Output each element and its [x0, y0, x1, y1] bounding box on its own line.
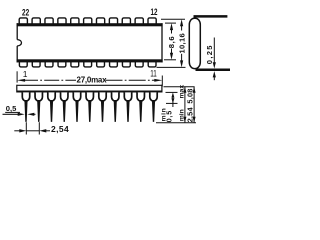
- body bar top line: [17, 84, 162, 86]
- 2,54 line between: [26, 130, 39, 132]
- dim line lower: [171, 49, 173, 57]
- down arrowhead: [180, 60, 183, 67]
- body bar bottom line (thick): [17, 91, 162, 93]
- down arrowhead: [170, 53, 173, 60]
- pins: tips x11: [24, 100, 155, 122]
- svg-text:0,5: 0,5: [6, 104, 17, 113]
- right extension line: [161, 76, 163, 87]
- svg-text:2,54: 2,54: [51, 124, 69, 134]
- dim 8,6 (body width): [164, 23, 176, 60]
- svg-text:10,16: 10,16: [178, 33, 187, 54]
- extension line from body top: [165, 22, 176, 24]
- side view: [3, 85, 162, 135]
- dim B down arrowhead at pin tip ext: [193, 117, 196, 123]
- 2,54 leader to text: [45, 130, 51, 132]
- IC body top view: [17, 18, 163, 67]
- ext line body bottom right: [166, 91, 178, 93]
- dim A down arrowhead: [183, 117, 186, 123]
- extension line from bottom pins: [157, 66, 186, 68]
- body left edge with index notch: [16, 23, 18, 39]
- left extension line: [16, 71, 18, 82]
- dim line B: [193, 87, 195, 123]
- 0,25 up arrowhead: [213, 71, 216, 77]
- side view right dimensions: [156, 85, 196, 123]
- body bottom edge (thick): [17, 59, 163, 62]
- 0,25 down arrowhead: [213, 62, 216, 68]
- dim line lower: [181, 54, 183, 64]
- ext line pin2: [38, 122, 40, 134]
- svg-text:27,0max: 27,0max: [77, 75, 108, 84]
- dim 27,0 max: [17, 71, 162, 86]
- svg-text:1: 1: [23, 69, 28, 79]
- 0,5 right arrowhead: [27, 113, 34, 116]
- ext line pin tips right: [156, 122, 196, 124]
- up arrowhead: [170, 23, 173, 30]
- body end profile (capsule): [189, 18, 200, 68]
- body bar left edge: [16, 85, 18, 93]
- svg-text:2,54: 2,54: [185, 107, 194, 123]
- dimension line left part: [23, 79, 76, 81]
- svg-text:min: min: [160, 108, 167, 122]
- 0,5 left arrowhead: [18, 113, 25, 116]
- svg-text:8,6: 8,6: [167, 36, 176, 49]
- svg-text:5,08: 5,08: [185, 88, 194, 103]
- body top edge (thick): [17, 23, 163, 26]
- 2,54 right arrow: [39, 129, 46, 132]
- dim line A: [184, 87, 186, 123]
- bottom pins row (pins 1..11): [19, 62, 156, 67]
- top pins row (pins 22..12): [19, 18, 156, 24]
- 2,54 left arrow: [19, 129, 26, 132]
- dim 0,25 line upper: [213, 38, 215, 64]
- left arrowhead: [17, 79, 25, 82]
- dim line upper: [181, 23, 183, 31]
- index notch arc: [17, 40, 21, 46]
- dim 0,25 line lower: [213, 75, 215, 80]
- ext line body top right: [164, 86, 195, 88]
- dim A up arrowhead: [183, 87, 186, 93]
- 0,5 right tail: [32, 113, 36, 115]
- end view of package: [189, 16, 230, 80]
- body bar right edge: [161, 85, 163, 93]
- 0,5 underline: [5, 111, 20, 113]
- svg-text:0,25: 0,25: [205, 44, 214, 64]
- top lead (edge-on): [194, 15, 228, 18]
- dim 10,16 (pin rows span): [157, 19, 187, 67]
- 0,5 left arrow line: [3, 113, 19, 115]
- body right edge: [161, 23, 163, 62]
- 2,54 dim line left tail: [14, 130, 20, 132]
- dim B up arrowhead: [193, 87, 196, 93]
- up arrowhead: [180, 19, 183, 26]
- dim 0,5min up arrowhead: [171, 92, 174, 97]
- dim line upper: [171, 27, 173, 34]
- pins: shoulders x11: [22, 92, 157, 101]
- dim 0,5min down arrowhead: [171, 98, 174, 103]
- dimension line right part: [106, 79, 158, 81]
- extension line from top pins: [161, 18, 185, 20]
- svg-text:11: 11: [150, 68, 157, 78]
- ext line seating right: [166, 102, 178, 104]
- bottom lead (edge-on): [196, 69, 231, 72]
- dim 0,5min leader: [172, 97, 174, 107]
- svg-text:12: 12: [151, 7, 158, 17]
- right arrowhead: [154, 79, 162, 82]
- dim 2,54 pitch: ext line pin1: [25, 122, 27, 134]
- extension line from body bottom: [164, 59, 176, 61]
- svg-text:22: 22: [22, 8, 29, 18]
